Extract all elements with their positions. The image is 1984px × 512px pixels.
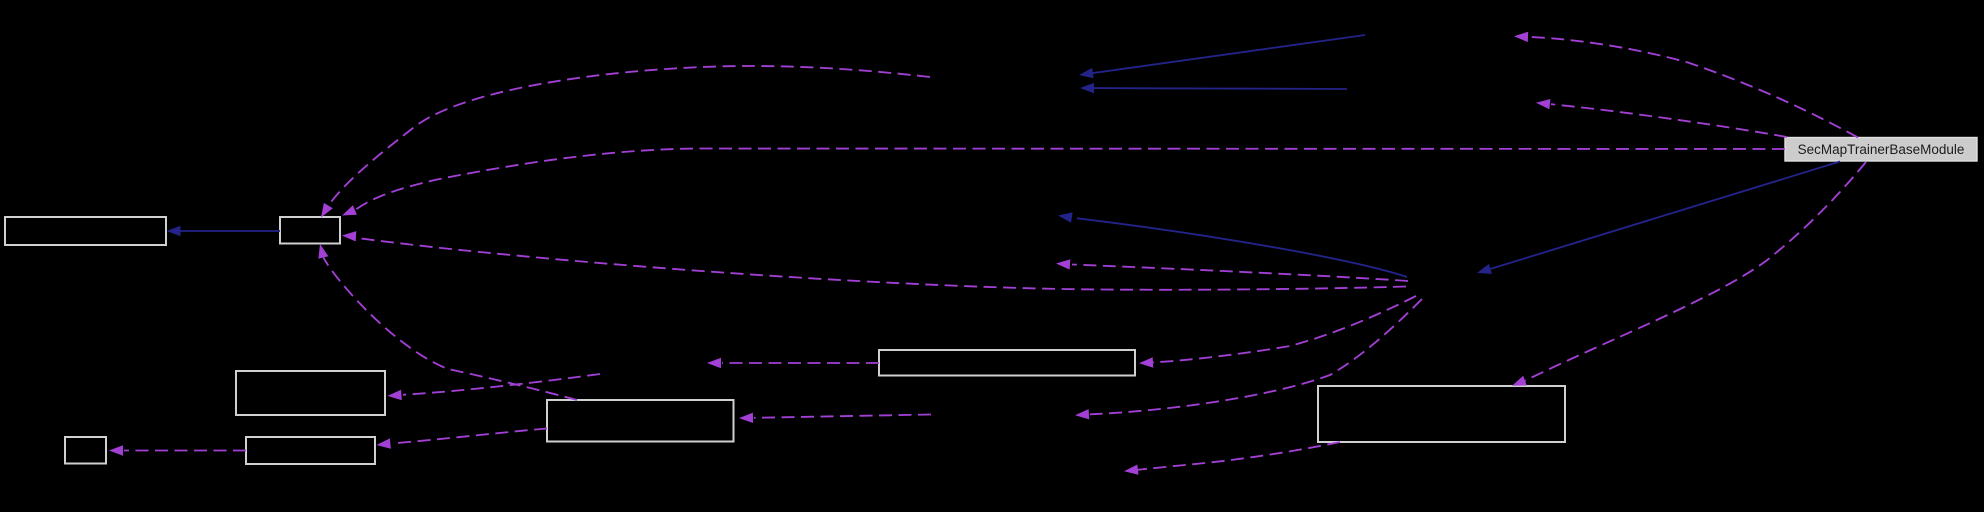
dashed edge long flat from SecMapTrainerBaseModule to node B top-right — [342, 149, 1785, 216]
dashed edge from hidden hub to node G right edge — [1139, 296, 1416, 368]
dashed edge from hidden hub to node C right edge — [388, 374, 601, 400]
dashed edge from node F left edge to node E — [109, 445, 246, 455]
node C (unlabeled class box, two-line) — [236, 371, 385, 415]
dashed edge from SecMapTrainerBaseModule top up-left (far arrowhead) — [1514, 32, 1858, 138]
dashed edge from SecMapTrainerBaseModule bottom to node H top-right — [1512, 162, 1866, 386]
dashed edge big top arc into node B top — [321, 66, 930, 218]
blue inheritance edge from hidden hub up-left — [1058, 212, 1407, 277]
dashed edge from node G left edge to hidden node — [707, 358, 879, 368]
dashed edge from hidden node into node D right edge — [739, 413, 931, 423]
dashed edge from node D top up to node B bottom — [318, 244, 577, 400]
dashed edge long from hidden hub to node B right edge — [342, 231, 1406, 290]
svg-text:SecMapTrainerBaseModule: SecMapTrainerBaseModule — [1798, 142, 1965, 157]
blue inheritance edge horizontal to hidden node — [1080, 83, 1347, 93]
node E (small unlabeled box, bottom-left) — [65, 437, 106, 464]
node H (tall unlabeled class box) — [1318, 386, 1565, 442]
blue inheritance edge from SecMapTrainerBaseModule down-left — [1477, 162, 1840, 274]
node D (unlabeled class box, two-line) — [547, 400, 734, 442]
dashed edge from node D left edge to node F right edge — [377, 429, 548, 449]
node F (unlabeled class box) — [246, 437, 375, 464]
node B (small unlabeled class box) — [280, 217, 340, 244]
blue inheritance edge from hidden node (1365,35) to hidden node right edge — [1079, 35, 1365, 78]
node G (wide unlabeled class box) — [879, 350, 1135, 376]
node A (unlabeled class box, top-left) — [5, 217, 166, 245]
dashed edge from hidden hub to hidden node above D — [1075, 299, 1422, 419]
node SecMapTrainerBaseModule (highlighted) — [1785, 138, 1977, 162]
dashed edge from node H bottom down-left to hidden node — [1124, 442, 1340, 475]
dashed edge from SecMapTrainerBaseModule top-left corner to hidden node — [1536, 99, 1787, 137]
dashed edge from hidden hub to hidden node (1056,263) — [1056, 259, 1408, 281]
blue inheritance edge B to A — [167, 226, 281, 236]
